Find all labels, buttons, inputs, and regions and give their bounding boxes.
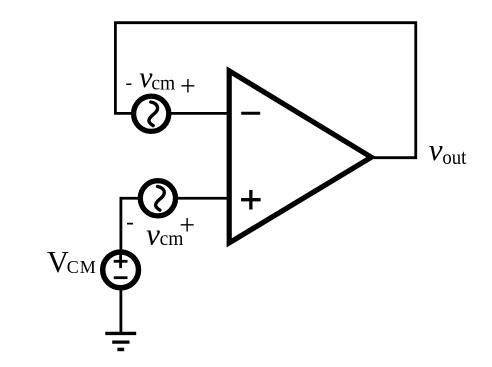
- svg-text:v: v: [429, 132, 443, 167]
- svg-text:+: +: [180, 71, 196, 102]
- ac source V2 (lower vcm source): [140, 181, 175, 216]
- svg-text:out: out: [442, 145, 466, 169]
- svg-text:V: V: [47, 245, 69, 279]
- svg-text:CM: CM: [67, 257, 97, 277]
- sine squiggle of V1: [149, 102, 158, 126]
- minus symbol inside VCM: [114, 276, 128, 279]
- svg-text:v: v: [146, 217, 160, 252]
- svg-text:-: -: [126, 72, 133, 94]
- sine squiggle of V2: [156, 187, 165, 211]
- svg-text:+: +: [179, 211, 195, 242]
- op-amp U1 triangle: [229, 71, 371, 243]
- ac source V1 (upper vcm source): [134, 96, 169, 131]
- dc source VCM: [103, 252, 139, 288]
- svg-text:cm: cm: [151, 74, 175, 95]
- ground: [105, 332, 136, 335]
- wire source V1 right terminal to op-amp inverting input: [169, 112, 229, 115]
- wire source V2 left terminal down to VCM source top: [121, 198, 140, 252]
- svg-text:-: -: [126, 209, 134, 234]
- wire source V2 right terminal to op-amp non-inverting input: [176, 197, 229, 200]
- plus symbol inside VCM: [114, 260, 128, 263]
- op-amp non-inverting input plus symbol: [241, 198, 261, 201]
- wire feedback loop: from op-amp output up across the top and down to source V1: [115, 23, 415, 158]
- wire VCM source bottom to ground: [120, 289, 123, 333]
- op-amp inverting input minus symbol: [241, 112, 260, 115]
